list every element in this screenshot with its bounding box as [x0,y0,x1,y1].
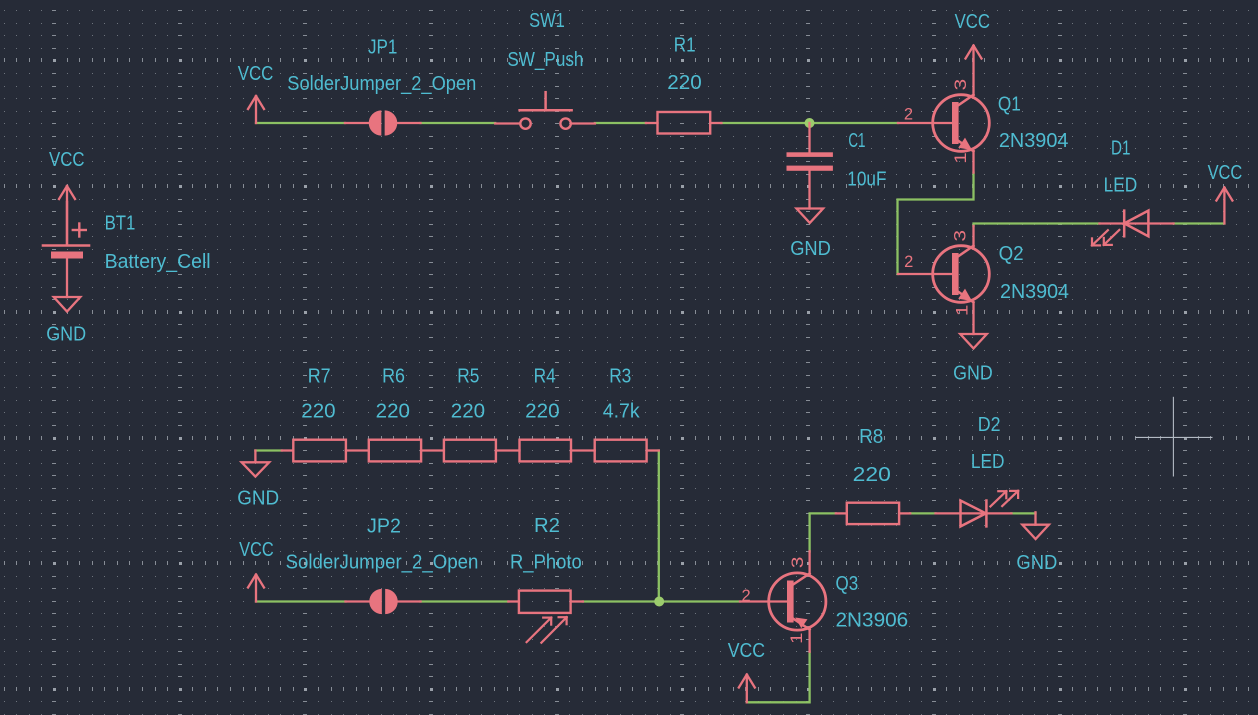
battery BT1 [66,202,68,245]
svg-text:VCC: VCC [238,63,274,85]
capacitor C1 [808,123,810,152]
power GND at C1 [808,171,810,209]
svg-text:1: 1 [952,152,970,164]
svg-text:1: 1 [954,305,972,317]
svg-text:R6: R6 [382,365,405,387]
transistor Q3 [740,600,788,602]
svg-text:VCC: VCC [239,539,274,561]
svg-text:R1: R1 [674,35,696,57]
svg-text:SW_Push: SW_Push [507,49,583,71]
svg-text:GND: GND [953,363,993,385]
svg-text:Battery_Cell: Battery_Cell [105,251,211,273]
svg-text:220: 220 [301,401,335,423]
wire D1 to VCC [1174,222,1225,224]
wire JP2 to R2 [421,600,509,602]
svg-text:GND: GND [237,488,279,510]
svg-text:R8: R8 [859,426,883,448]
svg-text:VCC: VCC [1208,162,1243,184]
svg-text:220: 220 [667,72,702,94]
junction node at Q3 base [654,597,664,607]
svg-text:220: 220 [376,401,410,423]
svg-text:R5: R5 [457,365,479,387]
svg-text:10uF: 10uF [847,169,886,191]
resistor R1 [646,122,658,124]
svg-text:2: 2 [904,106,913,124]
power GND at D2 [1034,512,1036,524]
resistor R6 [369,440,421,462]
resistor R7 [293,440,346,462]
wire Q3 emitter to VCC [747,652,810,703]
svg-text:R2: R2 [534,515,560,537]
svg-text:LED: LED [1104,175,1138,197]
wire R2 to Q3 base [583,600,740,602]
wire R8 to D2 [910,512,935,514]
svg-text:3: 3 [952,79,970,91]
power VCC at JP1 [255,97,257,123]
solder jumper JP1 [345,122,371,124]
photoresistor R2 [508,600,519,602]
wire Q2 collector to D1 [974,224,1100,227]
svg-text:220: 220 [853,464,891,486]
svg-text:2N3906: 2N3906 [836,610,909,632]
svg-text:VCC: VCC [955,11,990,33]
svg-text:JP1: JP1 [368,37,397,59]
wire JP1 to SW1 [421,122,496,124]
wire R3 to junction [658,451,660,602]
resistor R8 [836,512,847,514]
svg-text:R4: R4 [534,365,556,387]
svg-text:D2: D2 [978,414,1001,436]
transistor Q2 [898,273,953,275]
LED D2 [936,512,1012,514]
svg-text:GND: GND [1016,552,1057,574]
wire D2 to GND [1011,512,1035,514]
resistor R3 [595,440,647,462]
junction node at R1/C1 [805,118,815,128]
svg-text:C1: C1 [848,130,865,152]
svg-text:R_Photo: R_Photo [510,552,582,574]
svg-text:GND: GND [790,238,831,260]
svg-text:SW1: SW1 [529,10,565,32]
svg-text:GND: GND [46,324,86,346]
wire Q3 collector to R8 [810,513,836,551]
svg-text:Q2: Q2 [999,243,1024,265]
svg-text:Q3: Q3 [836,573,859,595]
svg-text:4.7k: 4.7k [603,401,641,423]
power GND at BT1 [66,259,68,298]
wire R1 to Q1 base [721,122,898,124]
svg-text:220: 220 [525,401,559,423]
transistor Q1 [898,122,953,124]
svg-text:D1: D1 [1111,138,1131,160]
svg-text:2N3904: 2N3904 [1000,281,1069,303]
power VCC at JP2 [255,576,257,602]
svg-text:SolderJumper_2_Open: SolderJumper_2_Open [287,73,476,95]
power VCC at Q1 [972,47,974,96]
svg-text:2: 2 [904,253,913,271]
svg-text:3: 3 [952,230,970,242]
cursor crosshair [1135,436,1212,438]
svg-text:R7: R7 [308,365,331,387]
svg-text:2: 2 [742,587,751,605]
wire Q1 emitter to Q2 base [898,173,974,274]
resistor R4 [520,440,572,462]
svg-text:VCC: VCC [728,640,765,662]
wire VCC to JP1 [256,122,345,124]
svg-text:BT1: BT1 [105,213,136,235]
power GND at R7 [254,451,256,463]
svg-text:R3: R3 [609,365,631,387]
svg-text:VCC: VCC [49,149,85,171]
svg-text:Q1: Q1 [998,94,1021,116]
svg-text:2N3904: 2N3904 [999,130,1069,152]
LED D1 [1100,222,1174,224]
svg-text:LED: LED [971,451,1005,473]
svg-text:JP2: JP2 [367,516,401,538]
resistor chain pins [282,449,294,451]
power GND at Q2 [972,303,974,334]
svg-text:SolderJumper_2_Open: SolderJumper_2_Open [286,552,479,574]
svg-text:1: 1 [788,632,806,644]
wire R7 to GND [255,449,281,451]
svg-text:3: 3 [789,557,807,569]
power VCC at BT1 [66,187,68,245]
switch SW1 [495,122,520,124]
power VCC at D1 [1223,189,1225,224]
power VCC at Q3 [746,676,748,703]
wire VCC to JP2 [256,600,346,602]
svg-text:220: 220 [451,401,485,423]
solder jumper JP2 [346,600,372,602]
resistor R5 [444,440,496,462]
wire SW1 to R1 [595,122,646,124]
